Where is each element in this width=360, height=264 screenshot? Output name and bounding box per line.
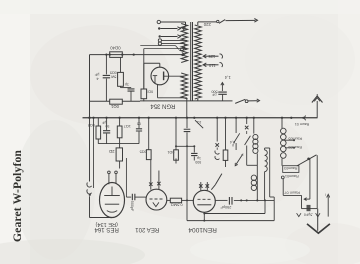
capacitor 500pF coupling [132, 194, 135, 201]
filament voltage arrow [221, 84, 223, 92]
bottom bus [187, 220, 274, 222]
wire x188 down [186, 146, 188, 220]
svg-text:μ: μ [232, 144, 234, 148]
tube RGN354 top lead [159, 63, 161, 67]
transformer T1 secondary winding [195, 25, 202, 99]
jack contact lower [87, 189, 92, 194]
tube RES164 lead g [108, 174, 110, 185]
svg-text:Raum06: Raum06 [288, 145, 302, 149]
ground lead [317, 209, 319, 231]
bus junction x148.7 [148, 117, 150, 119]
switch blade x217 [215, 174, 222, 185]
tube REA201 envelope [146, 189, 167, 210]
svg-text:RES 164: RES 164 [94, 226, 119, 233]
svg-text:Raum05: Raum05 [288, 136, 302, 140]
capacitor 05 [138, 118, 140, 128]
wire bottom rail [90, 100, 110, 102]
bus jack contact [305, 116, 306, 121]
svg-text:1μ: 1μ [197, 156, 201, 160]
wire switch down [316, 155, 318, 208]
tuning arrow [236, 155, 243, 165]
svg-text:RGN 354: RGN 354 [150, 103, 176, 109]
svg-text:Raum 01: Raum 01 [295, 122, 310, 126]
svg-text:(RE 134): (RE 134) [95, 221, 118, 227]
svg-text:0Ω5: 0Ω5 [140, 149, 147, 153]
coil L2 [251, 175, 256, 180]
resistor 0W7 [143, 63, 145, 89]
wire Raum07 [283, 194, 301, 196]
tube RES164 lead a [115, 174, 117, 184]
svg-text:50: 50 [105, 124, 109, 128]
capacitor 50 [106, 118, 108, 130]
tube RES164 filament [107, 211, 117, 213]
svg-text:05: 05 [137, 122, 141, 126]
wire col x254 top [253, 118, 255, 134]
wire rail 45.8 [140, 45, 175, 47]
tube REN1004 grid [198, 198, 211, 200]
capacitor 4uF [105, 55, 107, 75]
svg-text:0Ω7: 0Ω7 [146, 89, 153, 93]
wire left rail lower [89, 118, 91, 182]
tube RES164 anode [105, 203, 119, 205]
resistor 2W [119, 144, 121, 148]
tap Raum06 [285, 147, 293, 149]
wire jack to ground [89, 196, 91, 217]
capacitor col x188 [186, 118, 188, 128]
svg-text:pF: pF [211, 93, 216, 97]
capacitor 250pF [229, 197, 232, 205]
contact hooks x217 [215, 151, 219, 154]
capacitor 0,5uF ground [307, 205, 311, 211]
bus junction x106.5 [105, 117, 107, 119]
switch arm speaker [297, 155, 317, 166]
wire y213.5 [204, 213, 265, 215]
tube RES164 cathode lead [110, 217, 112, 220]
svg-text:Raum01: Raum01 [285, 174, 299, 178]
bus junction x187 [186, 117, 188, 119]
bus junction x89.5 [88, 117, 90, 119]
wire col x217 [216, 118, 218, 142]
ground symbol [307, 224, 330, 233]
tube RGN354 anode [163, 72, 165, 81]
mains terminal 2 [158, 27, 160, 29]
wire col x256 mid [256, 153, 258, 200]
svg-text:Raum03: Raum03 [284, 166, 297, 170]
speaker secondary line [269, 148, 271, 197]
svg-text:220: 220 [203, 22, 211, 27]
resistor col x176 [175, 118, 177, 150]
svg-text:Gearet W-Polyfon: Gearet W-Polyfon [11, 150, 24, 242]
coil L3 bottom [281, 159, 283, 166]
contact Raum01 [281, 176, 284, 179]
svg-text:2Ω: 2Ω [109, 149, 114, 154]
wire node 87.6 [121, 87, 132, 89]
mains terminal 1 [157, 20, 160, 23]
switch on bus x198 [195, 120, 203, 128]
bus junction x236.1 [235, 117, 237, 119]
svg-text:1Ω7: 1Ω7 [124, 124, 131, 128]
box Raum03 [283, 166, 299, 173]
wire bottom rail b [122, 100, 140, 102]
svg-text:500: 500 [195, 160, 201, 164]
resistor col x225 [225, 118, 227, 150]
bus junction x194.3 [193, 117, 195, 119]
contact hook gnd right [316, 213, 320, 217]
tap Raum05 [285, 139, 293, 141]
riser x265 [264, 200, 266, 213]
svg-text:μF: μF [102, 120, 106, 124]
svg-text:5W: 5W [110, 74, 116, 78]
speaker primary [264, 148, 266, 150]
tube REA201 grid [150, 198, 163, 200]
resistor REA feed [148, 118, 150, 150]
svg-text:Raum 07: Raum 07 [284, 190, 299, 194]
svg-text:REA 201: REA 201 [135, 226, 160, 233]
wire transformer bottom [197, 99, 199, 101]
tube REA201 lead grid [150, 160, 152, 190]
wire rail 48.2 [144, 48, 186, 50]
tap 110 [203, 63, 206, 66]
arrow col x246 [246, 118, 248, 124]
wire connector 143.6 [98, 143, 139, 145]
mains terminal 5 [158, 42, 161, 45]
tube REN1004 envelope [193, 190, 215, 212]
tube REA201 lead anode [158, 171, 160, 190]
wire to REN grid [182, 199, 194, 201]
coil L3 [281, 128, 287, 134]
transformer T1 primary winding upper [181, 24, 187, 63]
svg-text:110: 110 [208, 63, 215, 68]
svg-text:250pF: 250pF [220, 205, 232, 210]
svg-text:0Ω1: 0Ω1 [167, 150, 174, 154]
wire node 146.3 [176, 145, 194, 147]
bus junction x139 [138, 117, 140, 119]
transformer T1 core [190, 22, 192, 101]
antenna symbol [312, 96, 323, 103]
svg-text:0Ω5: 0Ω5 [110, 71, 117, 75]
capacitor 1uF [130, 87, 132, 89]
resistor 0W2 [97, 118, 99, 126]
bus junction x253.8 [253, 117, 255, 119]
tube RES164 envelope [100, 183, 125, 218]
wire Raum01 down [282, 179, 284, 196]
wire 220V tap [197, 22, 199, 25]
antenna riser [316, 101, 318, 118]
svg-text:1,4: 1,4 [224, 75, 230, 80]
tube REN1004 lead2 [206, 182, 208, 190]
mains terminal 4 [158, 39, 161, 42]
svg-text:μ: μ [241, 153, 243, 157]
wire cathode drop [93, 118, 95, 188]
wire to mains arrow [226, 19, 256, 21]
wire gnd cap [302, 208, 318, 210]
contact hook gnd left [297, 213, 301, 216]
switch col x236 [235, 118, 237, 133]
svg-text:,5μF0: ,5μF0 [304, 213, 314, 217]
tap 125 [203, 55, 206, 58]
resistor 5W [120, 57, 122, 72]
wire tap arrow 1 [183, 26, 186, 28]
resistor 0W40 [110, 52, 123, 58]
wire left rail [89, 55, 91, 118]
svg-text:1μ: 1μ [125, 83, 129, 87]
bus junction x291.3 [290, 117, 292, 119]
wire 250pF out [234, 199, 274, 201]
capacitor col x194 [193, 146, 195, 152]
mains terminal 3 [159, 35, 161, 37]
tube RES164 grid [104, 195, 120, 197]
bus junction x246.7 [246, 117, 248, 119]
svg-text:500pF: 500pF [130, 201, 134, 212]
voltage arrow [327, 197, 329, 217]
bus junction x93.5 [92, 117, 94, 119]
wire arm branch [309, 158, 311, 199]
svg-text:0Ω40: 0Ω40 [110, 46, 121, 51]
wire REN anode out [215, 199, 228, 201]
capacitor 500pF top-right [218, 92, 227, 94]
wire filament winding to bus [186, 98, 188, 118]
resistor 0,5MOhm [170, 198, 181, 203]
switch S2 [235, 99, 245, 103]
svg-text:125: 125 [208, 54, 216, 59]
bus junction x225.5 [224, 117, 226, 119]
coil L1 [253, 134, 258, 139]
tube REN1004 cathode [203, 212, 205, 220]
tube RGN354 cathode lead [157, 85, 159, 98]
bus junction x119.6 [118, 117, 120, 119]
wire to coupling cap [125, 158, 127, 197]
resistor 0W1 [110, 99, 123, 104]
bus junction x217.2 [216, 117, 218, 119]
transformer T1 filament winding lower [181, 73, 187, 99]
wire top rail [90, 54, 184, 56]
jack contact upper [87, 183, 92, 188]
tube RGN354 filament [153, 75, 158, 77]
main bus [83, 117, 318, 119]
bus junction x176 [175, 117, 177, 119]
switch S-220 [217, 20, 219, 22]
bus junction x282 [281, 117, 283, 119]
coil L3 feed [281, 118, 283, 128]
wire riser x143.8 [143, 49, 145, 89]
svg-text:1Ω: 1Ω [197, 120, 202, 124]
svg-text:0Ω1: 0Ω1 [110, 104, 119, 109]
resistor 1W7 [119, 118, 121, 126]
svg-text:REN1004: REN1004 [188, 226, 217, 233]
tube REN1004 lead1 [200, 182, 202, 191]
wire REA anode out [167, 199, 171, 201]
tube RGN354 envelope [151, 67, 169, 85]
svg-text:0,5MΩ: 0,5MΩ [171, 202, 183, 207]
tube REN1004 filament [197, 204, 211, 206]
tube REA201 filament [153, 202, 159, 206]
